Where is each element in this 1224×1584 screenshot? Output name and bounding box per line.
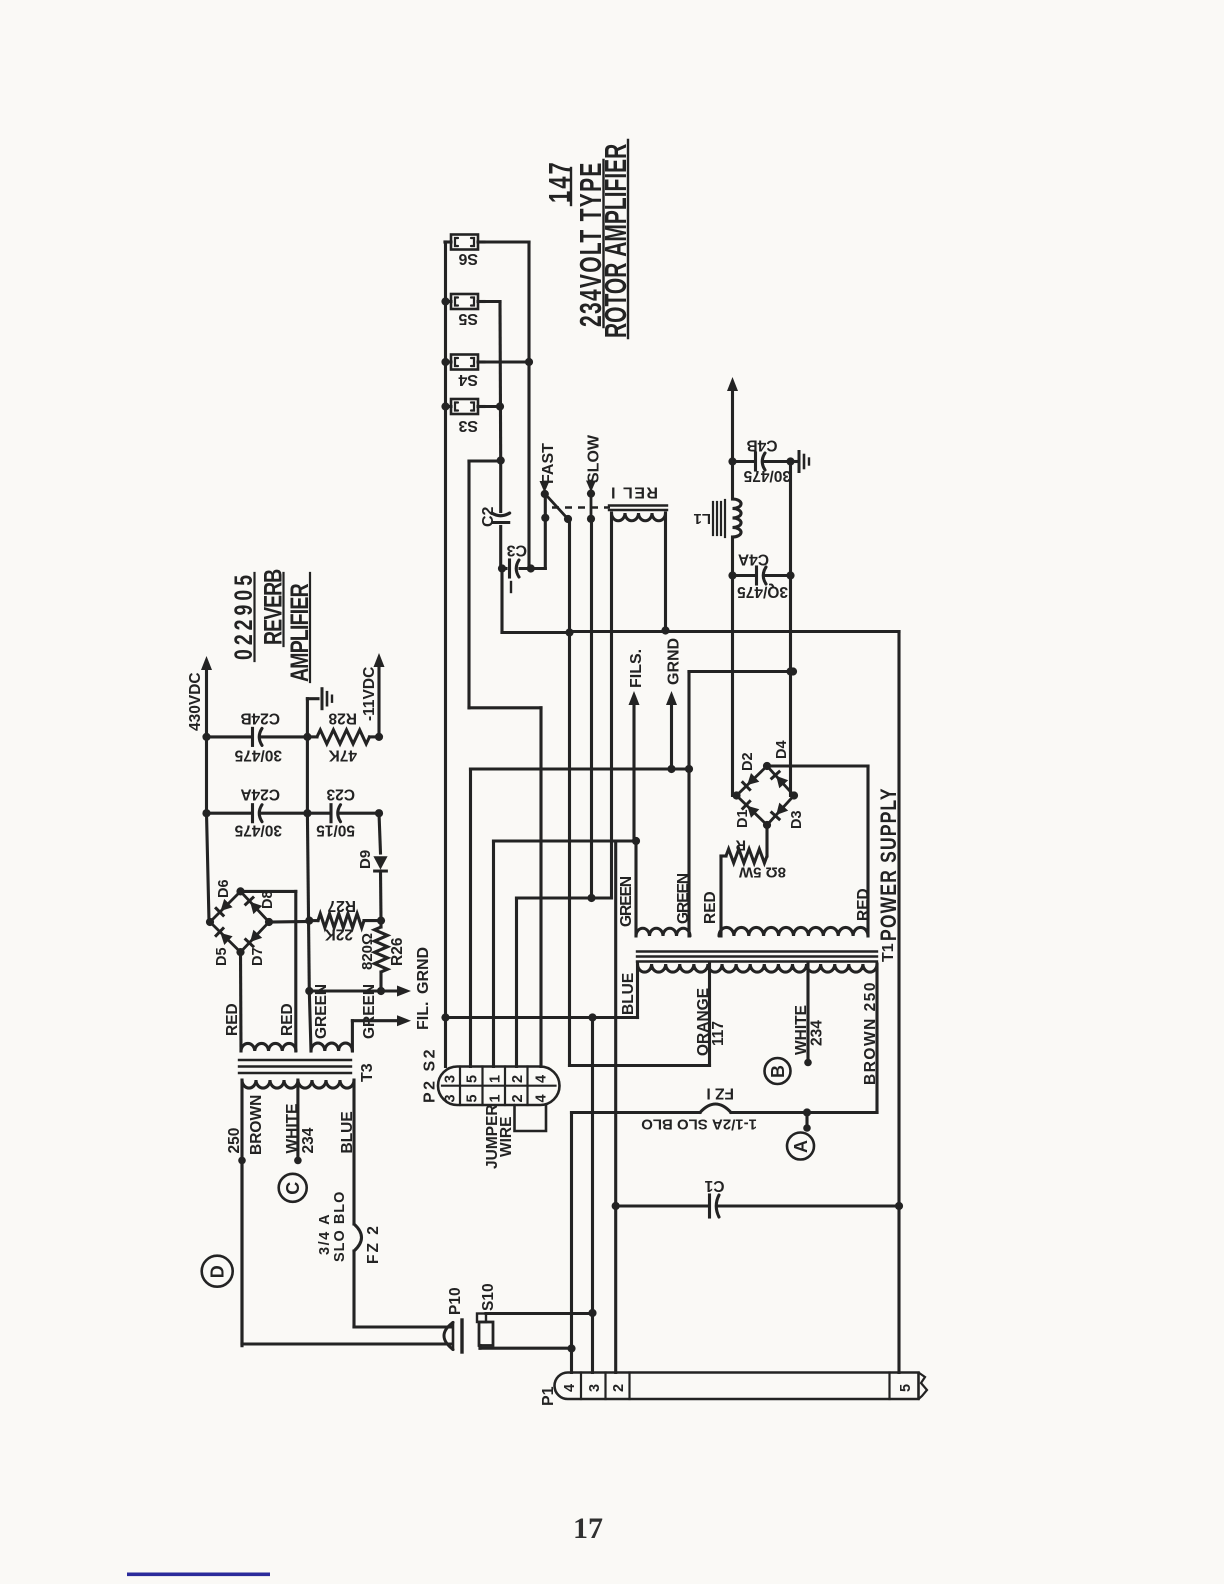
svg-text:FZ 2: FZ 2 [365,1224,382,1264]
svg-text:5: 5 [465,1094,481,1102]
connector P1 dividers [581,1373,890,1400]
svg-text:S4: S4 [458,371,478,388]
label BROWN 250 [862,981,879,1085]
wire ORANGE lead [708,964,711,1066]
diode D3 [772,803,788,820]
wire col4 relay net [517,898,612,1067]
svg-text:2: 2 [510,1094,526,1102]
inductor L1 [733,462,742,576]
label D8 [260,890,276,909]
switch S10 contacts [477,1314,493,1346]
blue mark bottom left [127,1573,270,1577]
label R27 [328,897,356,914]
svg-text:R: R [735,837,746,853]
svg-text:1-1/2A SLO BLO: 1-1/2A SLO BLO [641,1116,757,1133]
svg-text:FIL.: FIL. [415,1002,432,1030]
wire WHITE tap [804,964,812,1066]
label FILS. [628,649,645,705]
ground R28 [307,689,332,737]
svg-text:GRND: GRND [415,947,432,994]
svg-text:S10: S10 [480,1283,497,1311]
wire T3 green right lead [351,1021,354,1051]
svg-text:117: 117 [710,1021,727,1046]
node FAST contact [541,490,549,498]
connector P2S2 outline [438,1067,560,1106]
svg-text:BLUE: BLUE [339,1111,356,1153]
svg-text:234: 234 [300,1127,317,1153]
svg-text:S5: S5 [458,310,478,327]
wire right gnd bus [786,462,794,796]
label GREEN right [675,873,692,924]
svg-text:D3: D3 [789,810,805,829]
wire GREEN-right up-over [689,667,797,769]
label P2 S2 [422,1047,439,1103]
wire GREEN left lead [634,841,637,936]
bridge D1-D4 outline [737,766,795,825]
socket S3 [445,399,484,414]
svg-text:3: 3 [443,1094,459,1102]
svg-text:3: 3 [587,1384,603,1392]
svg-text:P10: P10 [447,1287,464,1315]
label GRND reverb [415,947,432,994]
label S10 [480,1283,497,1311]
page number 17 [573,1512,603,1545]
wire BROWN lead [807,964,877,1113]
diode D5 [216,928,233,945]
label JUMPER WIRE [484,1104,515,1169]
label C24B [240,710,280,727]
label RED right T3 [279,1003,296,1036]
wire WHITE 234 tap [294,1080,302,1164]
svg-text:3: 3 [443,1075,459,1083]
label D6 [216,879,232,898]
label 430VDC [187,672,204,731]
relay REL1 coil [612,513,666,521]
svg-text:5: 5 [898,1384,914,1392]
svg-text:B: B [768,1065,788,1078]
wire -11VDC arrow [374,653,385,741]
connector P2S2 pin numbers [443,1075,550,1103]
svg-text:ROTOR AMPLIFIER: ROTOR AMPLIFIER [598,144,633,338]
label GREEN left T3 [313,984,330,1039]
label T1 [880,943,897,962]
label BLUE [620,973,637,1015]
label 117 [710,1021,727,1046]
label P10 [447,1287,464,1315]
label RED right [855,888,872,921]
svg-text:D4: D4 [774,740,790,759]
socket S6 [445,235,484,250]
label FZ2 [365,1224,382,1264]
label D2 [740,752,756,771]
svg-text:30/475: 30/475 [234,747,282,764]
svg-text:D: D [208,1265,228,1278]
node GRND-arrow join [667,765,675,773]
node C3-S4S6 junction [527,564,535,572]
label FAST [540,443,558,493]
svg-text:4: 4 [534,1094,550,1102]
label P1 [540,1386,557,1406]
wire BROWN 250 lead [238,1080,246,1346]
wire S3 right lead [484,405,500,408]
capacitor C1 [612,1195,904,1217]
label C4B [746,437,777,454]
label C24B value [234,747,282,764]
svg-text:4: 4 [534,1075,550,1083]
svg-text:FAST: FAST [540,443,557,484]
wire C2C3 node down [502,569,570,633]
resistor R27 22K [309,914,381,928]
capacitor C23 [307,805,383,822]
label C4A value [737,583,788,600]
svg-text:RED: RED [855,888,872,921]
wire FIL line reverb [352,1015,411,1026]
svg-text:SLOW: SLOW [586,434,603,483]
label T3 [359,1063,376,1082]
label -11VDC [361,667,378,721]
wire BLUE lead [593,964,638,1018]
label R28 [328,710,357,727]
svg-text:3/4 A: 3/4 A [317,1213,333,1255]
wire S6-S4 right bus [484,242,529,568]
svg-text:RED: RED [702,891,719,924]
fuse FZ1 [572,1104,808,1113]
label REL 1 [610,484,658,501]
label 22K [324,926,353,943]
label FZ1 value [641,1116,757,1133]
svg-text:C3: C3 [506,542,527,559]
svg-text:47K: 47K [328,747,357,764]
svg-text:T3: T3 [359,1063,376,1082]
diode D9 [373,813,387,925]
wire R to RED left [721,856,726,936]
T3 primary coil [242,1080,354,1088]
wire C3 up to FAST [544,494,547,569]
wire pin2 bus [614,841,617,1373]
svg-text:C4A: C4A [738,551,769,568]
svg-text:GREEN: GREEN [618,876,635,927]
label S6 [458,250,478,267]
T1 core [637,952,877,962]
svg-text:D1: D1 [735,809,751,828]
wire S6 top corner [443,240,447,243]
svg-text:BROWN: BROWN [248,1095,265,1155]
diode D2 [743,773,760,790]
title text 147 / 234VOLT TYPE / ROTOR AMPLIFIER [542,144,633,338]
svg-text:D7: D7 [250,947,266,966]
diode D7 [246,930,263,947]
wire pin3 bus [588,1018,596,1373]
node FZ1-A tap [803,1108,811,1116]
label 8ohm 5W [738,864,786,881]
svg-text:REL I: REL I [610,484,658,501]
label GREEN right T3 [361,984,378,1039]
svg-text:T1: T1 [880,943,897,962]
label RED left [702,891,719,924]
svg-text:50/15: 50/15 [316,822,355,839]
label WHITE T3 [284,1104,301,1154]
svg-text:WIRE: WIRE [498,1117,515,1157]
svg-text:FZ I: FZ I [706,1085,734,1102]
svg-text:P2 S2: P2 S2 [422,1047,439,1103]
terminal D [202,1256,233,1287]
svg-text:C23: C23 [326,786,355,803]
wire T3 green left lead [309,991,311,1051]
svg-text:GREEN: GREEN [361,984,378,1039]
wire SLOW bus down [587,519,595,902]
diode D1 [743,801,760,818]
label C4B value [743,467,791,484]
svg-text:SLO BLO: SLO BLO [332,1191,348,1262]
svg-text:P1: P1 [540,1386,557,1406]
svg-text:S3: S3 [458,417,478,434]
svg-text:30/475: 30/475 [743,467,791,484]
terminal B [765,1058,791,1084]
wire FILS arrow line [632,701,635,841]
label C2 [480,506,497,527]
wire col2 GRND net [471,769,690,1067]
label L1 [693,510,711,527]
svg-text:D5: D5 [214,947,230,966]
label GRND [666,638,683,705]
wire jumper to col5 bus [469,461,541,1067]
label S3 [458,417,478,434]
wire FAST bus down to ORANGE corner [570,519,710,1066]
svg-text:WHITE: WHITE [284,1104,301,1154]
svg-text:147: 147 [542,160,577,203]
wire bridge2 bottom [239,952,243,1051]
node bridge vertices [732,762,798,829]
svg-text:C2: C2 [480,506,497,527]
wire REL1 left lead [610,513,613,898]
T3 core [239,1060,351,1073]
wire S4 right lead [484,360,529,363]
svg-text:R27: R27 [328,897,356,914]
label D1 [735,809,751,828]
T3 RED coil [241,1043,296,1051]
label D4 [774,740,790,759]
node GREEN-right join [685,765,693,773]
label 3/4A SLO BLO [317,1191,348,1262]
socket S4 [445,355,484,370]
relay REL1 core [609,506,667,511]
wire REL1 right lead [664,513,667,631]
wire 632 line to right [570,632,900,1373]
label SLOW [586,434,603,492]
switch SLOW contacts [587,490,595,523]
label C4A [738,551,769,568]
svg-text:3Q/475: 3Q/475 [737,583,788,600]
node S4 left [441,358,449,366]
inductor L1 core [713,500,725,537]
plug P10 [444,1320,462,1352]
svg-text:17: 17 [573,1512,603,1545]
label 234 T3 [300,1127,317,1153]
label ORANGE [695,988,712,1056]
svg-text:POWER SUPPLY: POWER SUPPLY [877,787,901,941]
svg-text:REVERB: REVERB [259,569,287,645]
terminal A [787,1133,814,1160]
label BLUE T3 [339,1111,356,1153]
wire 430VDC bus down [207,737,210,921]
svg-text:022905: 022905 [230,571,258,660]
svg-text:1: 1 [488,1075,504,1083]
svg-text:C: C [283,1182,303,1195]
T1 secondary GREEN coil [636,928,690,936]
svg-text:RED: RED [279,1003,296,1036]
node bridge2 vertices [206,887,273,956]
wire left bus [444,242,447,1067]
label S5 [458,310,478,327]
wire brown corner [240,1160,243,1344]
svg-text:4: 4 [562,1384,578,1392]
capacitor C4A [728,567,794,584]
svg-text:L1: L1 [693,510,711,527]
svg-text:-11VDC: -11VDC [361,667,378,721]
capacitor C4B [733,453,795,470]
diode D6 [216,899,232,915]
svg-text:D2: D2 [740,752,756,771]
wire GRND arrow line [670,701,673,769]
wire S10 top to pin3 bus [486,1312,593,1315]
svg-text:250: 250 [226,1128,243,1154]
svg-text:BLUE: BLUE [620,973,637,1015]
label C23 [326,786,355,803]
label RED left T3 [224,1003,241,1036]
terminal C [279,1174,307,1202]
wire BLUE T3 lead [354,1080,362,1327]
svg-text:R26: R26 [389,937,406,966]
svg-text:2: 2 [611,1384,627,1392]
title 147 underline [571,140,628,338]
wire col3 FIL net [494,841,637,1067]
label C24A [240,786,280,803]
svg-text:RED: RED [224,1003,241,1036]
connector P1 outline [555,1373,919,1400]
svg-text:5: 5 [465,1075,481,1083]
label C1 [704,1177,724,1194]
label S4 [458,371,478,388]
connector P1 pin numbers [562,1384,914,1392]
node C2 top junction [497,456,505,464]
svg-text:234: 234 [809,1020,826,1046]
svg-text:WHITE: WHITE [793,1005,810,1055]
T3 GREEN coil [311,1043,352,1051]
capacitor C3 [498,560,545,592]
svg-text:S6: S6 [458,250,478,267]
svg-text:A: A [791,1140,811,1153]
svg-text:FILS.: FILS. [628,649,645,688]
label WHITE [793,1005,810,1055]
capacitor C24A [202,805,311,822]
svg-text:2: 2 [510,1075,526,1083]
wire blue to plug [354,1325,452,1328]
socket S5 [445,294,484,309]
T1 primary coil [638,964,878,972]
svg-text:820Ω: 820Ω [359,933,376,970]
svg-text:C24B: C24B [240,710,280,727]
svg-text:GRND: GRND [666,638,683,685]
diode D8 [246,898,263,915]
label GREEN left [618,876,635,927]
svg-text:1: 1 [488,1094,504,1102]
wire 430VDC arrow [201,656,212,741]
label BROWN T3 [248,1095,265,1155]
label R [735,837,746,853]
node FIL-GREEN [632,837,640,845]
wire plus arrow [727,377,738,466]
svg-text:BROWN 250: BROWN 250 [862,981,879,1085]
node S3 right [496,402,504,410]
wire bridge2 right [269,920,309,924]
svg-text:22K: 22K [324,926,353,943]
label FIL reverb [415,1002,432,1030]
label 47K [328,747,357,764]
dashed relay link [552,506,610,508]
wire S10 bottom to pin4 bus [480,1346,572,1349]
svg-text:30/475: 30/475 [234,822,282,839]
title text 022905 REVERB AMPLIFIER [230,569,314,682]
label D3 [789,810,805,829]
label D7 [250,947,266,966]
wire bridge bottom to R [765,825,768,856]
svg-text:430VDC: 430VDC [187,672,204,731]
svg-text:C1: C1 [704,1177,724,1194]
label C3 [506,542,527,559]
bridge D5-D8 outline [210,891,269,952]
resistor R26 820ohm [375,921,388,996]
wire GREEN right lead [687,769,690,936]
capacitor C24B [207,728,312,745]
wire C4A left bus down [731,576,734,796]
jumper wire [515,1105,547,1131]
ground C4B [791,452,810,472]
wire A tap [803,1113,811,1132]
label D9 [357,850,374,869]
connector P2S2 grid [442,1067,556,1106]
wire mid bus down [305,737,313,995]
title 022905 REVERB AMPLIFIER underlines [255,573,311,682]
wire BROWN to pin4 [567,1113,575,1373]
diode D4 [772,772,788,789]
node S5 left [441,297,449,305]
label FZ1 [706,1085,734,1102]
svg-text:8Ω 5W: 8Ω 5W [738,864,786,881]
wire bridge top to RED right [767,766,868,936]
label 250 [226,1128,243,1154]
resistor R28 [307,730,379,744]
label POWER SUPPLY [877,787,901,941]
svg-text:D8: D8 [260,890,276,909]
wire S5 right bus [484,302,501,461]
label D5 [214,947,230,966]
wire bridge2 top over [241,891,296,1051]
node fastbus-632 [565,628,573,636]
label C23 value [316,822,355,839]
node S3 left [441,402,449,410]
capacitor C2 [492,461,510,569]
svg-text:C24A: C24A [240,786,280,803]
wire GRND line reverb [309,986,411,997]
node REL1 right tee [661,626,669,634]
svg-text:D6: D6 [216,879,232,898]
label 820ohm [359,933,376,970]
wire brown to plug [242,1342,452,1345]
label R26 [389,937,406,966]
svg-text:GREEN: GREEN [313,984,330,1039]
wire BLUE net to left [441,1013,596,1021]
svg-text:R28: R28 [328,710,357,727]
